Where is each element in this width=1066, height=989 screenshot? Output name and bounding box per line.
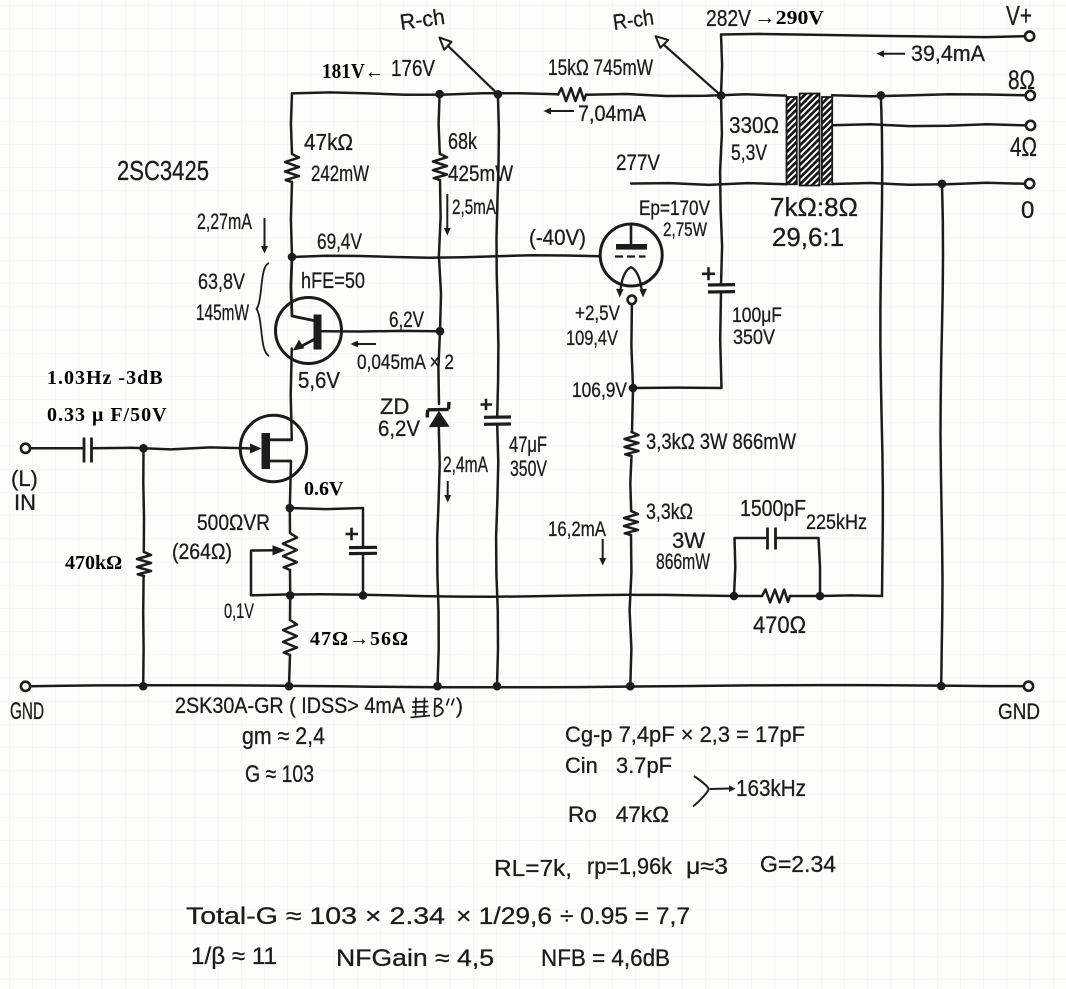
label 8 ohm [1008,65,1035,95]
node feedback right junction [816,592,825,601]
arrow R-ch right [656,36,721,95]
label 47-56 typed [310,628,409,650]
svg-text:2,75W: 2,75W [663,220,707,241]
svg-text:277V: 277V [616,150,660,175]
label 5.6V [298,367,341,393]
wire OPT secondary 4 ohm tap [832,124,1026,126]
svg-text:G=2.34: G=2.34 [760,851,836,877]
svg-text:29,6:1: 29,6:1 [772,222,844,252]
resistor R 3.3k upper [625,432,639,456]
svg-text:2SC3425: 2SC3425 [117,155,209,186]
arrow current 7.04mA [544,108,575,115]
label IN [14,490,36,515]
label 3.3k upper value [646,429,796,454]
svg-text:hFE=50: hFE=50 [301,268,365,293]
wire 470uF bottom [362,555,365,595]
wire collector of Q1 [291,257,314,321]
svg-text:0,1V: 0,1V [224,600,254,623]
node GND junction 47uF [493,682,502,691]
arrow current 2.5mA [444,194,451,236]
wire 0.6V node to 470uF top [290,508,363,546]
svg-text:): ) [456,695,463,718]
node 0 ohm terminal [1025,179,1034,188]
wire input node down to 470k [142,448,145,552]
node GND terminal left [21,682,30,691]
wire feedback rail y596 [251,594,882,596]
wire 6.2V node to zener [438,331,440,404]
svg-text:69,4V: 69,4V [317,229,362,254]
label mu [686,853,728,879]
capacitor C1 0.33uF coupling [84,438,92,463]
label 2.75W [663,220,707,241]
svg-text:GND: GND [998,699,1040,724]
svg-text:163kHz: 163kHz [736,775,806,801]
svg-text:3,3kΩ 3W 866mW: 3,3kΩ 3W 866mW [646,429,796,454]
label V+ [1006,0,1032,31]
wire 47uF top [497,94,499,417]
wire GND rail [30,685,1024,687]
wire 0.1V node to 47ohm [289,595,292,620]
node junction top rail 68k [435,90,444,99]
node GND junction source string [285,682,294,691]
svg-text:2,27mA: 2,27mA [197,209,252,234]
label 69.4V [317,229,362,254]
label 47k [304,129,353,155]
wire top rail left (181V) [292,92,558,94]
wire 68k to 6.2V node [439,180,441,331]
label Ep=170V [639,197,710,220]
svg-text:IN: IN [14,490,36,515]
label 290V typed [754,7,825,29]
label 0.6V typed [304,478,344,500]
label zener 6.2V [378,416,420,441]
label L channel [11,466,38,491]
label -40V [529,225,586,250]
svg-text:16,2mA: 16,2mA [548,518,606,541]
node 0.6V junction [286,504,295,513]
node 69.4V junction [288,253,297,262]
label 0 tap [1021,197,1034,224]
wire grid of V1 from 69.4V node [292,255,600,257]
svg-text:6,2V: 6,2V [378,416,420,441]
svg-text:1.03Hz -3dB: 1.03Hz -3dB [47,367,164,389]
arrow current 39.4mA [877,50,906,57]
svg-text:106,9V: 106,9V [572,379,627,402]
svg-text:866mW: 866mW [656,549,710,574]
svg-text:÷ 0.95 = 7,7: ÷ 0.95 = 7,7 [560,903,690,930]
label 425mW [448,161,513,186]
svg-text:15kΩ 745mW: 15kΩ 745mW [548,55,653,80]
label Cin [565,753,672,778]
label 2SK30A close paren [456,695,463,718]
svg-text:109,4V: 109,4V [566,327,618,350]
label 500 VR [197,510,270,535]
svg-text:225kHz: 225kHz [806,511,867,534]
wire between 3.3k resistors [630,456,631,511]
resistor R 47k [285,154,299,182]
label R-ch left [398,4,446,35]
label 145mW [196,300,249,325]
transistor Q2 JFET 2SK30A [240,415,306,481]
label 7k:8 [770,192,858,222]
node 4 ohm terminal [1026,121,1035,130]
resistor R 470 ohm feedback [762,590,790,603]
label 282V [706,5,752,31]
svg-text:NFB = 4,6dB: NFB = 4,6dB [541,945,670,972]
wire cathode node to 3.3k [632,388,633,432]
label 0.1V [224,600,254,623]
svg-text:282V: 282V [706,5,752,31]
svg-text:rp=1,96k: rp=1,96k [587,853,672,879]
label 2.4mA [443,452,488,477]
node 6.2V junction [436,327,445,336]
wire 3.3k lower to GND [630,535,632,686]
node V+ terminal [1025,32,1034,41]
svg-text:330Ω: 330Ω [729,112,779,138]
svg-text:181V←: 181V← [322,59,384,83]
label 2SK30A [175,693,405,718]
label 106.9V [572,379,627,402]
node junction 8ohm feedback takeoff [877,91,886,100]
label 5.3V [731,140,767,165]
svg-text:68k: 68k [448,128,477,154]
kanji scribble senbetsu [411,698,455,718]
label GND left [10,698,44,725]
wire plate of V1 to OPT primary [631,183,787,185]
wire VR bottom to 0.1V node [289,570,292,595]
label R-ch right [611,4,655,34]
svg-text:0,045mA × 2: 0,045mA × 2 [357,351,454,374]
label rp [587,853,672,879]
label 2.5mA [452,196,496,219]
label 0.33uF typed [47,404,168,426]
node GND terminal right [1024,682,1033,691]
svg-text:4Ω: 4Ω [1010,132,1037,162]
wire 470k to GND [142,576,145,686]
label TotalG part2 [560,903,690,930]
svg-text:(-40V): (-40V) [529,225,586,250]
svg-text:2,5mA: 2,5mA [452,196,496,219]
svg-text:47Ω→56Ω: 47Ω→56Ω [310,628,409,650]
label 4 ohm [1010,132,1037,162]
node feedback left junction [730,592,739,601]
svg-text:8Ω: 8Ω [1008,65,1035,95]
resistor R 68k [433,154,447,180]
label 181V typed [322,59,384,83]
svg-text:Cg-p 7,4pF × 2,3 = 17pF: Cg-p 7,4pF × 2,3 = 17pF [565,722,805,747]
label 39.4mA [911,41,985,66]
label 1500pF [740,495,806,521]
svg-text:Cin 3.7pF: Cin 3.7pF [565,753,672,778]
svg-text:470kΩ: 470kΩ [65,552,122,574]
svg-text:NFGain ≈ 4,5: NFGain ≈ 4,5 [336,945,494,972]
node input terminal [21,444,30,453]
svg-text:350V: 350V [510,456,547,481]
svg-text:63,8V: 63,8V [198,269,245,294]
label 330 ohm [729,112,779,138]
capacitor C3 100uF/350V [702,267,735,292]
wire emitter of Q1 down to JFET drain [291,349,292,441]
label 68k [448,128,477,154]
svg-text:350V: 350V [733,326,775,349]
svg-text:470Ω: 470Ω [753,612,806,639]
svg-text:(264Ω): (264Ω) [172,539,232,564]
svg-text:V+: V+ [1006,0,1032,31]
svg-text:176V: 176V [391,55,436,81]
transistor Q1 2SC3425 [276,298,342,364]
arrow VR wiper head [273,545,286,555]
label 470 ohm [753,612,806,639]
label GND right [998,699,1040,724]
node GND junction 470k [139,682,148,691]
svg-text:2SK30A-GR ( IDSS> 4mA: 2SK30A-GR ( IDSS> 4mA [175,693,405,718]
svg-text:500ΩVR: 500ΩVR [197,510,270,535]
svg-text:0.33 μ F/50V: 0.33 μ F/50V [47,404,168,426]
wire 68k top [439,94,440,154]
svg-text:RL=7k,: RL=7k, [494,855,572,881]
label 109.4V [566,327,618,350]
label 866mW [656,549,710,574]
label 470k typed [65,552,122,574]
label 176V [391,55,436,81]
wire 0 ohm rail down to GND [941,184,944,686]
label Ro [568,802,669,827]
node 470uF bottom junction [359,591,368,600]
svg-text:× 1/29,6: × 1/29,6 [456,903,552,930]
label 6.2V base [389,307,424,332]
label NFGain [336,945,494,972]
svg-text:145mW: 145mW [196,300,249,325]
svg-text:47μF: 47μF [509,432,547,457]
svg-text:39,4mA: 39,4mA [911,41,985,66]
wire JFET source down to 0.6V node [290,461,291,508]
label 7.04mA [578,101,646,126]
svg-text:GND: GND [10,698,44,725]
wire coupling cap to gate [92,447,251,449]
label 350V b [733,326,775,349]
svg-text:7,04mA: 7,04mA [578,101,646,126]
wire 47k to 69.4V node [291,182,292,257]
node GND junction right [937,682,946,691]
wire input to coupling cap [30,447,84,450]
svg-text:0: 0 [1021,197,1034,224]
wire VR top [289,508,292,533]
node cathode 106.9V junction [629,384,638,393]
wire zener to GND [437,427,440,686]
wire OPT secondary 0 ohm rail [832,183,1025,185]
label 242mW [311,161,369,186]
label 47uF [509,432,547,457]
node junction top rail 47uF [494,90,503,99]
label 3W [672,528,705,553]
transformer T1 output 7k:8 [787,94,833,186]
svg-text:47kΩ: 47kΩ [304,129,353,155]
label 2.27mA [197,209,252,234]
resistor R 3.3k lower [624,511,638,535]
label 225kHz [806,511,867,534]
arrow current 0.045mA [351,341,377,348]
capacitor C4 470uF/10V [346,528,378,554]
svg-text:Total-G ≈ 103 × 2.34: Total-G ≈ 103 × 2.34 [186,903,445,930]
potentiometer VR 500 ohm track [283,533,297,570]
label 63.8V [198,269,245,294]
label 100uF [732,304,782,327]
wire base of Q1 to 6.2V node [322,330,441,333]
svg-text:G ≈ 103: G ≈ 103 [245,761,314,788]
node input junction [139,444,148,453]
svg-text:Ro 47kΩ: Ro 47kΩ [568,802,669,827]
label ZD [380,394,409,419]
svg-text:0.6V: 0.6V [304,478,344,500]
wire B+ vertical and V+ lead [721,34,1026,96]
svg-text:+2,5V: +2,5V [575,302,620,325]
arrow R-ch left [439,38,498,95]
svg-text:→290V: →290V [754,7,825,29]
svg-text:425mW: 425mW [448,161,513,186]
svg-text:Ep=170V: Ep=170V [639,197,710,220]
svg-text:7kΩ:8Ω: 7kΩ:8Ω [770,192,858,222]
arrow current 16.2mA [599,539,606,566]
capacitor C 1500pF branch wires [734,538,820,596]
label TotalG frac [456,903,552,930]
resistor R 15k (inline top rail) [558,88,586,101]
svg-text:5,3V: 5,3V [731,140,767,165]
label 264 ohm [172,539,232,564]
svg-text:gm ≈ 2,4: gm ≈ 2,4 [242,723,325,750]
capacitor C2 47uF/350V [481,399,512,425]
svg-text:6,2V: 6,2V [389,307,424,332]
fork to 163kHz [693,776,736,807]
capacitor C5 1500pF [768,528,776,550]
wire feedback takeoff from 8ohm rail [880,95,882,596]
node junction B+ rail [717,91,726,100]
resistor R 47-56 ohm [283,620,297,655]
label 1.03Hz typed [47,367,164,389]
label Cg-p [565,722,805,747]
wire left vertical 181V to 47k [291,93,292,154]
svg-text:(L): (L) [11,466,38,491]
label 350V a [510,456,547,481]
svg-text:100μF: 100μF [732,304,782,327]
label NFB [541,945,670,972]
label 2SC3425 [117,155,209,186]
node GND junction 3.3k [626,682,635,691]
wire 100uF bottom to cathode node [633,292,722,388]
svg-text:5,6V: 5,6V [298,367,341,393]
wire B+ down to 100uF [720,96,722,285]
svg-text:1/β ≈ 11: 1/β ≈ 11 [191,943,277,970]
resistor R 470k [137,552,151,576]
svg-text:2,4mA: 2,4mA [443,452,488,477]
svg-text:1500pF: 1500pF [740,495,806,521]
arrow current 2.4mA [444,481,451,503]
node 0ohm rail junction [938,180,947,189]
wire VR wiper [251,550,274,595]
label 29.6:1 [772,222,844,252]
wire 47ohm to GND [289,655,290,686]
label 16.2mA [548,518,606,541]
label 0.045mA [357,351,454,374]
wire cathode of V1 down [631,304,633,388]
node cathode terminal of V1 [628,296,636,304]
brace 63.8V [257,263,270,356]
label 163kHz [736,775,806,801]
wire top rail right (B+ to 8ohm terminal) [586,94,1026,96]
label 3.3k lower [646,499,693,524]
node 8 ohm terminal [1026,91,1035,100]
svg-text:242mW: 242mW [311,161,369,186]
label gm [242,723,325,750]
label TotalG part1 [186,903,445,930]
label hFE=50 [301,268,365,293]
svg-text:μ≈3: μ≈3 [686,853,728,879]
label RL=7k [494,855,572,881]
zener diode ZD 6.2V [427,402,449,427]
node 0.1V junction [286,591,295,600]
tube V1 triode [600,224,662,298]
label +2.5V [575,302,620,325]
label G=103 [245,761,314,788]
arrow current 2.27mA [261,218,268,254]
node GND junction zener [433,682,442,691]
wire 47uF bottom to GND [496,425,498,687]
label 277V [616,150,660,175]
svg-text:3,3kΩ: 3,3kΩ [646,499,693,524]
label 1/beta [191,943,277,970]
label 15k value [548,55,653,80]
label G=2.34 [760,851,836,877]
